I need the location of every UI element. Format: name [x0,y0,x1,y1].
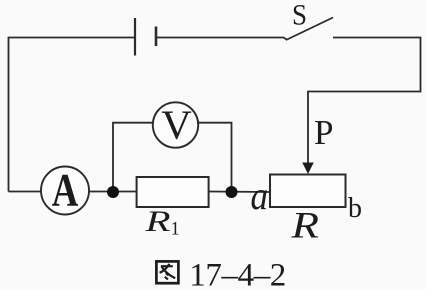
svg-text:A: A [52,165,79,217]
svg-text:b: b [348,193,362,224]
svg-text:P: P [314,113,333,152]
svg-text:R: R [290,206,319,247]
svg-text:R: R [144,205,170,238]
svg-text:17–4–2: 17–4–2 [189,257,286,290]
svg-text:1: 1 [171,220,180,240]
svg-text:V: V [161,102,192,148]
svg-text:S: S [292,0,307,31]
svg-text:a: a [251,173,269,218]
